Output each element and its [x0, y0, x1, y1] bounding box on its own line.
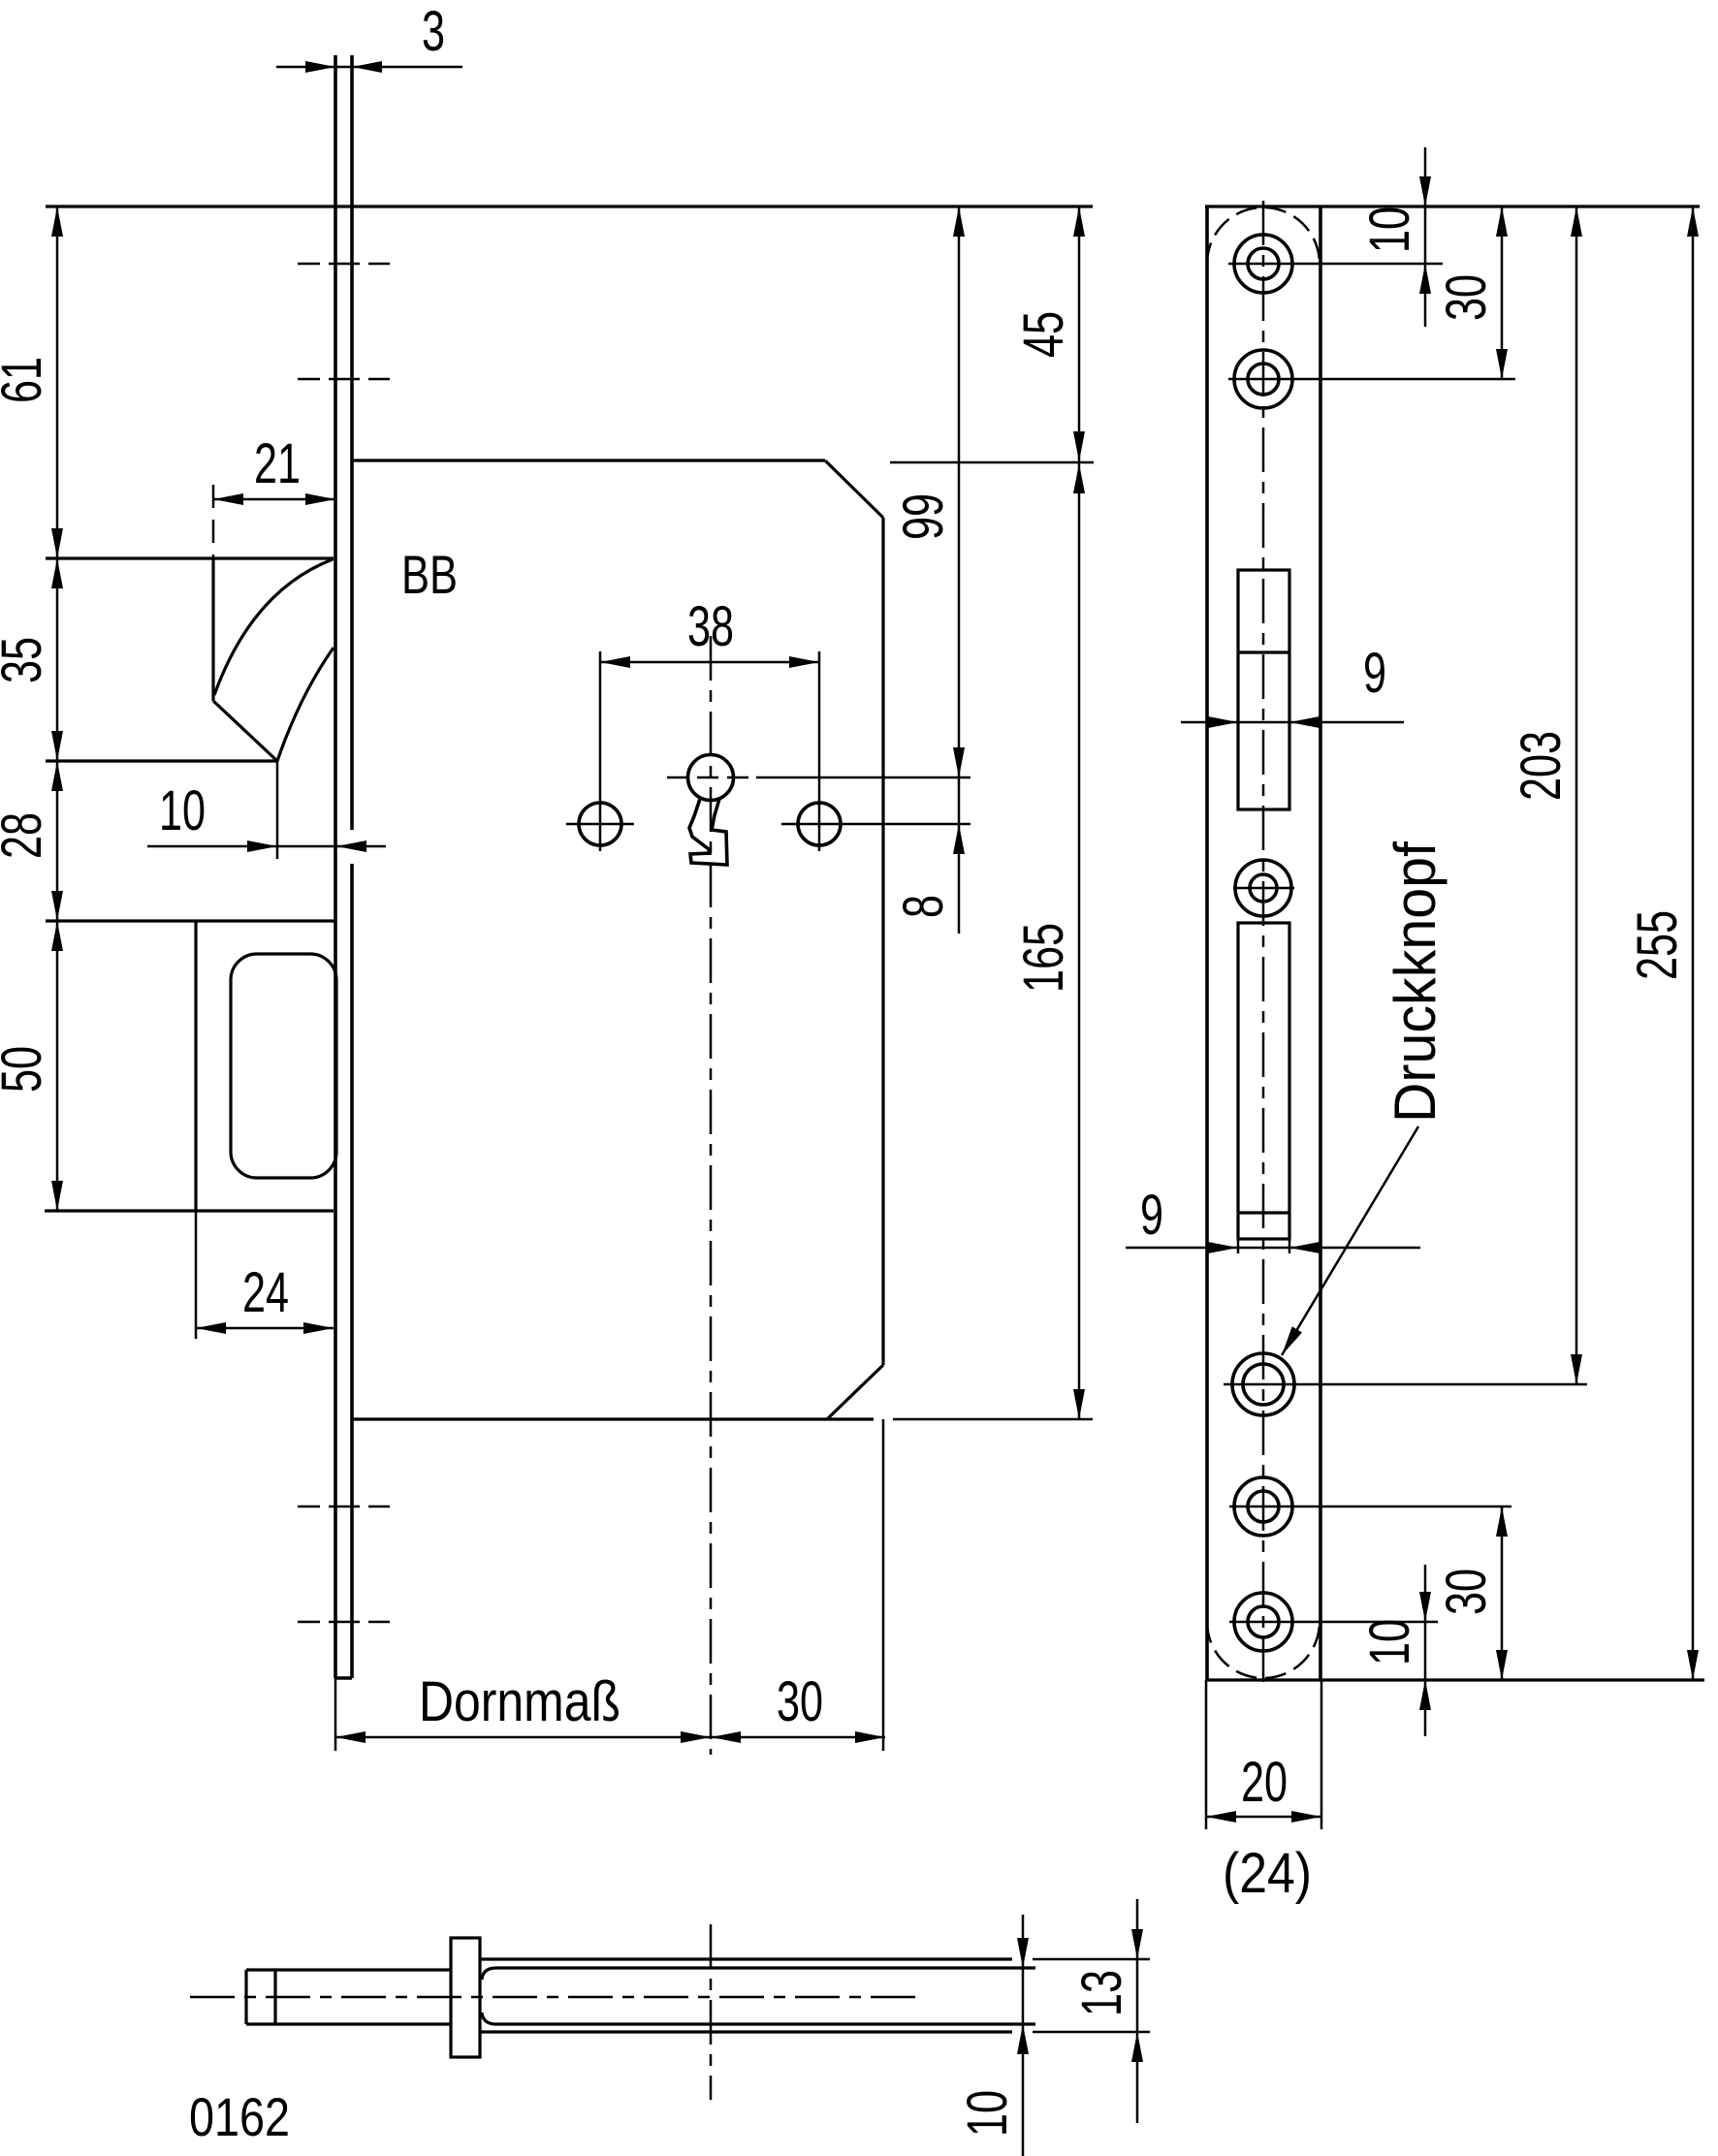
- svg-text:28: 28: [0, 812, 53, 859]
- dim 13 lower arrow: [1136, 2032, 1139, 2123]
- dim 10 bottom view connector: [1022, 1968, 1025, 2024]
- dim 203 line: [1575, 206, 1578, 1384]
- screw hole D inner: [1248, 1606, 1279, 1637]
- button window inner line: [1238, 1211, 1289, 1214]
- dim 30 top line: [1501, 206, 1504, 379]
- latch top edge: [46, 556, 334, 559]
- faceplate lower extension: [334, 1678, 337, 1751]
- dim 20 right extension: [1320, 1680, 1323, 1829]
- case outer bottom extension: [1033, 2031, 1150, 2034]
- svg-text:10: 10: [159, 779, 206, 842]
- hub right vertical centerline: [818, 651, 821, 851]
- case inner bottom: [482, 2013, 1035, 2024]
- dim 50 line: [56, 921, 59, 1211]
- dim 9 lower connector: [1238, 1247, 1289, 1250]
- dim 255 line: [1692, 206, 1695, 1680]
- dim Dornmass line: [335, 1736, 711, 1739]
- dim 20 line: [1206, 1816, 1321, 1819]
- faceplate break mark 3: [298, 1506, 390, 1508]
- svg-text:Dornmaß: Dornmaß: [419, 1670, 620, 1733]
- screw hole B inner: [1248, 364, 1279, 395]
- dim 8 arrow: [958, 824, 961, 934]
- latch left edge: [211, 559, 214, 701]
- screw hole C outer: [1234, 1477, 1292, 1536]
- dim 10 top lower arrow: [1424, 264, 1427, 327]
- case outer top: [480, 1957, 1012, 1960]
- button window right extension: [1288, 1239, 1291, 1253]
- dim 30 bottom line: [711, 1736, 885, 1739]
- dim 21 line: [213, 498, 335, 501]
- svg-text:3: 3: [422, 0, 445, 63]
- bolt top edge: [46, 919, 334, 922]
- dim 10 top connector: [1424, 206, 1427, 264]
- screw hole A inner: [1248, 248, 1279, 279]
- svg-text:10: 10: [956, 2090, 1019, 2137]
- dim 21 extension dashed: [212, 485, 215, 559]
- dim 61 line: [56, 206, 59, 558]
- dim 35 line: [56, 558, 59, 761]
- dim 9 upper right arrow: [1289, 721, 1404, 724]
- dim 10 bottom-right upper arrow: [1424, 1565, 1427, 1622]
- dim 9 lower right arrow: [1289, 1247, 1420, 1250]
- latch inner bevel arc: [277, 648, 334, 761]
- follower hole outer: [1235, 860, 1291, 916]
- keyhole horizontal centerline: [667, 777, 756, 779]
- svg-text:10: 10: [1358, 206, 1421, 253]
- hub left horizontal centerline: [566, 823, 634, 826]
- dim 3 connector: [335, 66, 352, 69]
- push-button hole centerline: [1224, 1383, 1587, 1386]
- svg-text:38: 38: [687, 595, 734, 658]
- hub left vertical centerline: [599, 651, 602, 851]
- case outer bottom: [480, 2030, 1012, 2033]
- plate bottom edge: [1206, 1678, 1704, 1681]
- latch outer bevel arc: [214, 559, 333, 695]
- dim 10 latch connector: [277, 845, 336, 848]
- svg-text:8: 8: [892, 895, 955, 918]
- FRONT VIEW: [0, 0, 1094, 1755]
- RIGHT VIEW: [1126, 147, 1704, 1905]
- svg-text:30: 30: [1435, 274, 1498, 321]
- dim 165 line: [1078, 463, 1081, 1419]
- svg-text:10: 10: [1358, 1619, 1421, 1665]
- case right edge extension: [882, 1419, 885, 1751]
- svg-text:21: 21: [254, 432, 301, 495]
- screw hole C centerline: [1229, 1506, 1511, 1508]
- keyhole circle: [688, 755, 734, 801]
- svg-text:30: 30: [1435, 1569, 1498, 1615]
- button window: [1238, 923, 1289, 1239]
- svg-text:35: 35: [0, 637, 53, 683]
- case right edge: [881, 518, 884, 1365]
- dim 30 bottom-right line: [1501, 1506, 1504, 1680]
- button window left extension: [1237, 1239, 1240, 1253]
- push-button hole outer: [1232, 1353, 1294, 1415]
- svg-text:(24): (24): [1223, 1842, 1312, 1905]
- Druckknopf leader: [1282, 1126, 1418, 1355]
- faceplate section: [451, 1938, 480, 2057]
- dim 10 bottom view upper arrow: [1022, 1915, 1025, 1968]
- faceplate left edge: [334, 55, 337, 1678]
- svg-text:165: 165: [1012, 923, 1075, 993]
- case bottom-right chamfer: [827, 1365, 883, 1419]
- latch stem top: [246, 1968, 451, 1971]
- dim 10 bottom-right lower arrow: [1424, 1680, 1427, 1736]
- screw hole A centerline: [1228, 263, 1443, 266]
- faceplate break mark 1: [298, 263, 390, 266]
- case top-right chamfer: [825, 460, 883, 518]
- screw hole B centerline: [1228, 378, 1515, 381]
- plate left edge: [1205, 206, 1209, 1680]
- dim 24 line: [196, 1327, 334, 1330]
- svg-text:30: 30: [777, 1670, 823, 1733]
- latch tip extension line: [276, 761, 279, 859]
- plate right edge: [1319, 206, 1322, 1680]
- case inner bottom edge: [352, 1417, 874, 1420]
- lock case top edge: [46, 205, 1093, 207]
- keyhole vertical centerline: [710, 636, 713, 1755]
- bolt slot rounded opening: [231, 954, 336, 1178]
- bottom rounding dashed arc: [1207, 1622, 1320, 1678]
- handle hub left circle: [579, 803, 621, 845]
- dim 10 latch left arrow: [147, 845, 277, 848]
- latch notch diagonal: [213, 701, 277, 761]
- svg-text:BB: BB: [401, 544, 458, 605]
- dim 9 upper connector: [1238, 721, 1289, 724]
- dim 3 right arrow: [352, 66, 462, 69]
- svg-text:255: 255: [1626, 910, 1689, 980]
- svg-text:20: 20: [1241, 1751, 1288, 1814]
- dim 99/8 extension line: [756, 777, 970, 779]
- latch window inner line: [1238, 650, 1289, 653]
- bolt left edge: [194, 921, 197, 1211]
- dim 10 latch right arrow: [336, 845, 386, 848]
- dim 45 line: [1078, 206, 1081, 461]
- svg-text:50: 50: [0, 1046, 53, 1093]
- dim 9 lower left arrow: [1126, 1247, 1238, 1250]
- faceplate bottom cap: [335, 1676, 352, 1680]
- faceplate break mark 2: [298, 378, 390, 381]
- svg-text:Druckknopf: Druckknopf: [1383, 841, 1448, 1123]
- follower hole centerline: [1233, 887, 1294, 890]
- dim 38 line: [600, 661, 819, 664]
- faceplate right edge upper part: [350, 55, 354, 830]
- svg-text:9: 9: [1363, 642, 1386, 705]
- svg-text:24: 24: [242, 1261, 289, 1324]
- bolt edge extension: [195, 1211, 198, 1339]
- screw hole B outer: [1234, 350, 1292, 408]
- latch bottom edge: [46, 759, 277, 762]
- dim 8 connector: [958, 777, 961, 824]
- case inner top: [482, 1968, 1035, 1980]
- bolt bottom edge: [45, 1209, 334, 1212]
- screw hole C inner: [1248, 1491, 1279, 1522]
- dim 165 top extension: [890, 461, 1094, 464]
- dim 13 upper arrow: [1136, 1899, 1139, 1959]
- latch stem bottom: [246, 2022, 451, 2025]
- latch stem end cap: [244, 1970, 247, 2024]
- dim 9 upper left arrow: [1181, 721, 1238, 724]
- screw hole A outer: [1234, 235, 1292, 293]
- dim 165 bottom extension: [893, 1418, 1093, 1421]
- svg-text:203: 203: [1510, 731, 1573, 801]
- dim 10 top upper arrow: [1424, 147, 1427, 206]
- latch window: [1238, 570, 1289, 809]
- keyhole wards profile: [689, 799, 727, 865]
- screw hole D centerline: [1229, 1621, 1438, 1624]
- faceplate break mark 4: [298, 1621, 390, 1624]
- keyhole axis centerline: [710, 1924, 713, 2100]
- dim 13 connector: [1136, 1959, 1139, 2032]
- dim 28 line: [56, 761, 59, 921]
- push-button hole inner: [1243, 1364, 1284, 1405]
- svg-text:0162: 0162: [189, 2086, 290, 2147]
- faceplate right edge lower part: [350, 864, 354, 1678]
- striking plate top edge: [1205, 205, 1700, 207]
- case outer top extension: [1033, 1958, 1150, 1961]
- case inner top edge: [352, 459, 825, 461]
- dim 3 left arrow: [276, 66, 335, 69]
- dim 99 line: [958, 206, 961, 777]
- plate vertical centerline: [1262, 201, 1265, 1692]
- dim 10 bottom-right connector: [1424, 1622, 1427, 1680]
- svg-text:45: 45: [1012, 311, 1075, 358]
- bottom view horizontal centerline: [190, 1996, 923, 1999]
- hub right horizontal centerline: [781, 823, 970, 826]
- svg-text:61: 61: [0, 357, 53, 403]
- dim 20 left extension: [1205, 1680, 1208, 1829]
- BOTTOM VIEW: [189, 1899, 1150, 2156]
- svg-text:99: 99: [892, 493, 955, 540]
- handle hub right circle: [798, 803, 841, 845]
- dim 10 bottom view lower arrow: [1022, 2024, 1025, 2156]
- latch stem shoulder: [273, 1970, 276, 2024]
- follower hole inner: [1250, 874, 1277, 902]
- svg-text:13: 13: [1070, 1970, 1133, 2016]
- top rounding dashed arc: [1207, 207, 1320, 264]
- svg-text:9: 9: [1140, 1184, 1163, 1247]
- screw hole D outer: [1234, 1593, 1292, 1651]
